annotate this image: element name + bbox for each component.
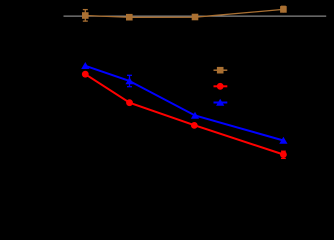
legend blue sample [214, 99, 228, 106]
red marker 3 [191, 122, 198, 129]
brown marker 2 [126, 14, 133, 21]
blue marker 4 [279, 137, 287, 144]
legend brown sample [214, 67, 228, 74]
brown error bar 1 [83, 10, 88, 22]
legend red sample [214, 83, 228, 90]
red marker 4 [280, 151, 287, 158]
brown marker 3 [192, 14, 199, 21]
red series line [85, 74, 283, 154]
blue marker 2 [125, 77, 133, 84]
blue marker 3 [191, 112, 199, 119]
blue error bar 2 [127, 75, 132, 86]
blue series line [85, 66, 283, 141]
brown marker 1 [82, 12, 89, 19]
red marker 2 [126, 99, 133, 106]
red error bar 4 [281, 151, 286, 158]
brown marker 4 [280, 6, 287, 13]
blue marker 1 [81, 62, 89, 69]
red marker 1 [82, 71, 89, 78]
gray baseline [64, 15, 327, 17]
brown series line [85, 9, 283, 17]
brown error bar 4 [281, 6, 286, 12]
